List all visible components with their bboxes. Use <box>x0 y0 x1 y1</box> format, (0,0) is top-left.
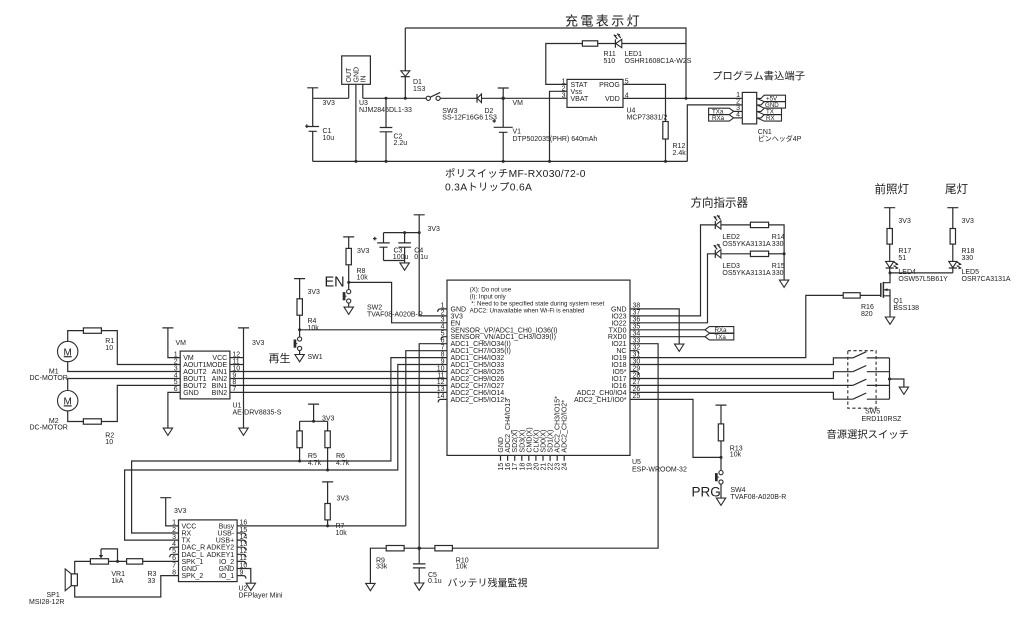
wire U3 OUT pin <box>348 84 350 98</box>
ground rail (bottom) <box>313 160 688 162</box>
switch SW5 element 1 <box>853 352 890 358</box>
svg-text:18: 18 <box>519 463 526 471</box>
svg-text:ADC2_CH7/IO27: ADC2_CH7/IO27 <box>451 383 505 390</box>
diode D2 <box>476 94 478 103</box>
svg-text:OS5YKA3131A: OS5YKA3131A <box>722 270 771 277</box>
svg-text:USB+: USB+ <box>216 538 234 545</box>
svg-text:OUT: OUT <box>346 67 353 83</box>
svg-text:GND: GND <box>611 306 627 313</box>
svg-text:R18: R18 <box>962 248 975 255</box>
wire IO35 to DFPlayer Busy <box>406 351 447 526</box>
wire TX net (IO33 to DFPlayer TX) <box>125 365 447 541</box>
LED LED2 <box>714 221 716 229</box>
switch SW5 element 2 <box>853 366 890 372</box>
svg-text:DC-MOTOR: DC-MOTOR <box>30 375 68 382</box>
svg-text:SENSOR_VN/ADC1_CH3/IO39(I): SENSOR_VN/ADC1_CH3/IO39(I) <box>451 334 556 341</box>
svg-text:IO5*: IO5* <box>612 369 626 376</box>
wire U3 IN pin <box>362 84 364 98</box>
svg-text:(I): Input only: (I): Input only <box>470 293 507 300</box>
power 3V3 (ESP) <box>414 215 425 316</box>
svg-text:BSS138: BSS138 <box>893 305 919 312</box>
svg-text:OSR7CA3131A: OSR7CA3131A <box>962 276 1011 283</box>
svg-text:VDD: VDD <box>605 96 620 103</box>
svg-text:10: 10 <box>105 345 113 352</box>
svg-text:10k: 10k <box>336 530 348 537</box>
nc hooks U2 pins 15-11 <box>237 533 246 536</box>
svg-text:3V3: 3V3 <box>898 218 911 225</box>
svg-text:LED2: LED2 <box>722 234 740 241</box>
resistor R7 <box>325 504 330 520</box>
power 3V3 (R7) <box>322 482 333 504</box>
resistor R17 <box>887 229 892 245</box>
svg-text:22: 22 <box>548 463 555 471</box>
wire speaker minus to U2 SPK_2 <box>75 576 179 597</box>
svg-text:IO_1: IO_1 <box>219 573 234 580</box>
svg-text:OSW57L5B61Y: OSW57L5B61Y <box>898 276 948 283</box>
svg-text:16: 16 <box>505 463 512 471</box>
wire 3V3 rail left segment <box>313 97 349 99</box>
svg-text:ADC1_CH6/IO34(I): ADC1_CH6/IO34(I) <box>451 341 511 348</box>
svg-text:CLK(X): CLK(X) <box>533 430 540 453</box>
svg-text:GND: GND <box>353 67 360 83</box>
svg-text:GND: GND <box>219 566 235 573</box>
svg-text:ポリスイッチMF-RX030/72-0: ポリスイッチMF-RX030/72-0 <box>445 168 586 180</box>
svg-text:R15: R15 <box>772 263 785 270</box>
svg-text:Busy: Busy <box>219 523 235 530</box>
resistor R1 <box>83 328 101 333</box>
svg-text:3V3: 3V3 <box>308 289 321 296</box>
svg-text:VM: VM <box>176 340 187 347</box>
svg-text:10k: 10k <box>456 563 468 570</box>
wire ESP GND pin38 to ground <box>630 309 679 344</box>
wire IO17 to SW5 <box>630 372 853 379</box>
wire M2 minus lead <box>68 411 84 422</box>
svg-text:3V3: 3V3 <box>357 248 370 255</box>
svg-text:20: 20 <box>533 463 540 471</box>
wire divider junction <box>404 547 435 549</box>
wire AIN1 to IO25 <box>230 371 447 373</box>
wire M1 minus to U1 AOUT2 <box>68 362 181 372</box>
capacitor C3 <box>373 233 390 261</box>
wire U4 Vss to ground rail <box>550 91 568 161</box>
svg-text:10u: 10u <box>323 135 335 142</box>
wire RX net (IO32 to DFPlayer RX) <box>132 358 447 533</box>
wire U1 VCC stub <box>230 357 244 359</box>
power 3V3 (regulator output) <box>307 88 318 99</box>
svg-text:33k: 33k <box>376 563 388 570</box>
wire bypass branch <box>384 232 420 234</box>
resistor R8 <box>346 248 351 264</box>
svg-text:19: 19 <box>526 463 533 471</box>
svg-text:EN: EN <box>325 274 345 290</box>
power 3V3 (R17) <box>884 208 895 229</box>
net flag RXa <box>709 115 734 121</box>
power 3V3 (R5/R6 pullups) <box>308 404 319 421</box>
svg-text:3: 3 <box>172 534 176 541</box>
switch SW1 <box>298 337 302 341</box>
motor M1 <box>57 341 77 361</box>
power (R13 pullup) <box>716 405 727 424</box>
resistor R9 <box>370 548 386 583</box>
svg-text:ピンヘッダ4P: ピンヘッダ4P <box>758 134 802 143</box>
svg-text:17: 17 <box>512 463 519 471</box>
svg-text:3V3: 3V3 <box>323 100 336 107</box>
svg-text:13: 13 <box>437 386 445 393</box>
net flag +5V <box>757 95 786 101</box>
resistor R5 <box>297 431 302 448</box>
svg-text:DFPlayer Mini: DFPlayer Mini <box>239 593 283 600</box>
resistor R16 <box>843 293 860 298</box>
svg-text:15: 15 <box>498 463 505 471</box>
wire R1 to U1 AOUT1 <box>101 331 180 365</box>
resistor R14 <box>750 222 768 227</box>
svg-text:SPK_1: SPK_1 <box>182 559 204 566</box>
wire SW2 to ground <box>348 303 350 307</box>
svg-text:IO22: IO22 <box>611 320 626 327</box>
capacitor C4 <box>398 233 411 263</box>
bottom pin stubs 15-24 <box>501 455 565 460</box>
wire U4 VDD to CN1 <box>623 97 742 99</box>
power 3V3 (R18) <box>947 208 958 229</box>
svg-text:2.2u: 2.2u <box>394 140 408 147</box>
wire 3V3 to ESP pin2 <box>419 315 447 317</box>
capacitor C5 <box>413 548 426 583</box>
wire SW1 to ground <box>299 351 301 355</box>
wire EN net to ESP <box>349 282 447 322</box>
svg-text:IO18: IO18 <box>611 362 626 369</box>
ground (U1 GND) <box>163 428 172 435</box>
potentiometer VR1 <box>90 559 108 564</box>
svg-text:10k: 10k <box>357 275 369 282</box>
switch SW2 <box>347 290 351 294</box>
svg-text:R17: R17 <box>898 248 911 255</box>
switch SW5 element 4 <box>853 393 890 399</box>
svg-text:R7: R7 <box>336 523 345 530</box>
svg-text:DC-MOTOR: DC-MOTOR <box>30 425 68 432</box>
svg-text:Q1: Q1 <box>893 298 902 305</box>
resistor R15 <box>750 251 768 256</box>
svg-text:ESP-WROOM-32: ESP-WROOM-32 <box>632 467 687 474</box>
svg-text:ADC2_CH5/IO12*: ADC2_CH5/IO12* <box>451 397 508 404</box>
svg-text:510: 510 <box>604 58 616 65</box>
svg-text:RXa: RXa <box>712 115 725 122</box>
wire 5V top rail <box>405 28 686 98</box>
svg-text:GND: GND <box>182 566 198 573</box>
svg-text:V1: V1 <box>513 128 522 135</box>
svg-text:VBAT: VBAT <box>571 96 589 103</box>
wire CN1 pin2 GND <box>687 105 742 161</box>
net flag TXa (ESP) <box>705 334 734 340</box>
svg-text:330: 330 <box>962 255 974 262</box>
wire SW4 to ground <box>720 484 722 498</box>
svg-text:RX: RX <box>182 531 192 538</box>
svg-text:ADC2_CH1/IO0*: ADC2_CH1/IO0* <box>574 397 627 404</box>
LED LED4 <box>886 261 894 267</box>
svg-text:尾灯: 尾灯 <box>945 183 968 196</box>
switch SW5 dashed box <box>848 351 876 409</box>
wire IO23 to LED2 <box>630 225 715 316</box>
regulator U3 <box>342 56 371 84</box>
svg-text:ADC2_CH8/IO25: ADC2_CH8/IO25 <box>451 369 505 376</box>
svg-text:前照灯: 前照灯 <box>875 182 910 196</box>
LED LED1 <box>614 39 616 47</box>
wire IO4 to SW5 <box>630 392 853 399</box>
ground (C3/C4) <box>400 263 409 270</box>
svg-text:AE-DRV8835-S: AE-DRV8835-S <box>233 410 282 417</box>
battery V1 <box>492 98 512 161</box>
svg-text:AOUT2: AOUT2 <box>183 369 206 376</box>
wire IO21 to battery divider (R10) <box>452 344 658 549</box>
wire U4 PROG to R12 <box>623 84 666 121</box>
audio module U2 DFPlayer <box>179 520 238 582</box>
svg-text:LED3: LED3 <box>722 263 740 270</box>
svg-text:GND: GND <box>183 390 199 397</box>
wire IO22 to LED3 <box>630 254 715 323</box>
svg-text:バッテリ残量監視: バッテリ残量監視 <box>448 576 528 589</box>
svg-text:DTP502035(PHR) 640mAh: DTP502035(PHR) 640mAh <box>513 136 598 143</box>
svg-text:DAC_L: DAC_L <box>182 552 205 559</box>
svg-text:SD3(X): SD3(X) <box>519 430 526 453</box>
svg-text:CMD(X): CMD(X) <box>526 427 533 452</box>
motor M2 <box>57 391 77 411</box>
nc hook pin14 <box>438 399 447 402</box>
svg-text:音源選択スイッチ: 音源選択スイッチ <box>827 428 909 441</box>
wire M2 plus to U1 BOUT1 <box>68 379 181 391</box>
wire U1 MODE stub <box>230 364 244 366</box>
wire U1 GND to ground <box>168 392 180 428</box>
svg-text:Vss: Vss <box>571 89 583 96</box>
svg-text:IN: IN <box>360 76 367 83</box>
svg-text:R5: R5 <box>308 453 317 460</box>
svg-text:PROG: PROG <box>599 82 620 89</box>
wire SENSOR_VP net (SW1 to ESP) <box>300 329 447 331</box>
svg-text:10k: 10k <box>730 452 742 459</box>
svg-text:PRG: PRG <box>692 485 721 500</box>
transistor Q1 <box>883 273 890 283</box>
resistor R12 <box>663 122 668 140</box>
svg-text:IO_2: IO_2 <box>219 559 234 566</box>
svg-text:ADKEY2: ADKEY2 <box>207 545 235 552</box>
power VM <box>498 88 509 98</box>
svg-text:3V3: 3V3 <box>337 495 350 502</box>
wire VR1 to R3 <box>109 560 127 562</box>
wire IO18 to SW5 <box>630 358 853 365</box>
resistor R18 <box>950 229 955 245</box>
svg-text:SW5: SW5 <box>865 409 880 416</box>
wire pullup top link <box>300 421 328 431</box>
svg-text:TXa: TXa <box>715 334 727 341</box>
switch SW5 element 3 <box>853 379 890 385</box>
svg-text:820: 820 <box>861 311 873 318</box>
wire C3 to C4 ground link <box>384 260 405 262</box>
wire BIN2 to IO14 <box>230 391 447 393</box>
svg-text:SPK_2: SPK_2 <box>182 573 204 580</box>
connector CN1 <box>742 92 756 124</box>
wire SW3 to D2 <box>440 97 477 99</box>
svg-text:ADKEY1: ADKEY1 <box>207 552 235 559</box>
resistor R6 <box>325 431 330 448</box>
svg-text:3: 3 <box>441 317 445 324</box>
svg-text:USB-: USB- <box>217 531 234 538</box>
svg-text:0.1u: 0.1u <box>414 254 428 261</box>
svg-text:3: 3 <box>174 365 178 372</box>
svg-text:10: 10 <box>105 439 113 446</box>
svg-text:CN1: CN1 <box>758 129 772 136</box>
svg-text:AIN2: AIN2 <box>212 376 228 383</box>
svg-text:TVAF08-A020B-R: TVAF08-A020B-R <box>367 312 423 319</box>
wire IO16 to SW5 <box>630 384 853 386</box>
svg-text:ADC2_CH6/IO14: ADC2_CH6/IO14 <box>451 390 505 397</box>
speaker SP1 <box>65 569 71 591</box>
svg-text:充電表示灯: 充電表示灯 <box>565 14 642 29</box>
svg-text:5: 5 <box>174 379 178 386</box>
svg-text:33: 33 <box>148 578 156 585</box>
svg-text:MCP73831/2: MCP73831/2 <box>627 114 668 121</box>
nc hook U2 pin5 <box>170 554 179 557</box>
wire IO19 to R16 <box>630 295 843 357</box>
wire AIN2 to IO26 <box>230 378 447 380</box>
wire M1 plus lead <box>68 331 84 342</box>
svg-text:TX: TX <box>182 538 191 545</box>
wire R3 to U2 SPK_1 <box>143 560 179 562</box>
svg-text:ADC2_CH0/IO4: ADC2_CH0/IO4 <box>577 390 627 397</box>
svg-text:AIN1: AIN1 <box>212 369 228 376</box>
svg-text:VCC: VCC <box>182 523 197 530</box>
svg-text:RXD0: RXD0 <box>608 334 627 341</box>
svg-text:IO16: IO16 <box>611 383 626 390</box>
svg-text:BIN2: BIN2 <box>212 390 228 397</box>
svg-text:10: 10 <box>437 365 445 372</box>
svg-text:(X): Do not use: (X): Do not use <box>470 286 512 293</box>
svg-text:3V3: 3V3 <box>962 218 975 225</box>
svg-text:DAC_R: DAC_R <box>182 545 206 552</box>
svg-text:AOUT1: AOUT1 <box>183 362 206 369</box>
switch SW4 <box>719 471 723 475</box>
net flag TXa <box>709 108 734 114</box>
svg-text:SD1(X): SD1(X) <box>548 430 555 453</box>
svg-text:R6: R6 <box>336 453 345 460</box>
svg-text:再生: 再生 <box>269 351 291 365</box>
svg-text:U2: U2 <box>239 586 248 593</box>
net flag RX <box>757 115 782 121</box>
svg-text:EN: EN <box>451 320 461 327</box>
svg-text:BOUT1: BOUT1 <box>183 376 206 383</box>
svg-text:3V3: 3V3 <box>252 340 265 347</box>
net flag TX <box>757 108 782 114</box>
svg-text:1S3: 1S3 <box>413 86 426 93</box>
svg-text:*: Need to be specified state: *: Need to be specified state during sys… <box>471 300 604 307</box>
svg-text:51: 51 <box>898 255 906 262</box>
diode D1 <box>404 28 406 98</box>
wire LED cathode link <box>890 272 953 274</box>
svg-text:ADC2: Unavailable when Wi-Fi i: ADC2: Unavailable when Wi-Fi is enabled <box>470 307 585 314</box>
svg-text:GND: GND <box>451 306 467 313</box>
svg-text:0.1u: 0.1u <box>428 578 442 585</box>
svg-text:330: 330 <box>772 270 784 277</box>
svg-text:SD2(X): SD2(X) <box>512 430 519 453</box>
svg-text:SD0(X): SD0(X) <box>541 430 548 453</box>
svg-text:1kA: 1kA <box>111 578 123 585</box>
power 3V3 (DFPlayer VCC) <box>160 498 178 526</box>
svg-text:プログラム書込端子: プログラム書込端子 <box>712 70 805 83</box>
svg-text:7: 7 <box>172 562 176 569</box>
svg-text:3V3: 3V3 <box>174 508 187 515</box>
nc hook pin1 <box>438 309 447 312</box>
resistor R11 <box>582 41 597 46</box>
svg-text:3V3: 3V3 <box>428 226 441 233</box>
wire speaker plus to VR1 <box>75 561 91 574</box>
svg-text:SW1: SW1 <box>308 354 323 361</box>
svg-text:24: 24 <box>562 463 569 471</box>
wire U3 GND pin to ground rail <box>355 84 357 161</box>
svg-text:R16: R16 <box>861 304 874 311</box>
svg-text:ADC2_CH4/IO13: ADC2_CH4/IO13 <box>505 399 512 453</box>
wire BIN1 to IO27 <box>230 384 447 386</box>
resistor R2 <box>83 419 101 424</box>
wire U2 GND pin10 to ground <box>237 569 251 584</box>
svg-text:LED5: LED5 <box>962 269 980 276</box>
resistor R3 <box>127 559 143 564</box>
svg-text:2: 2 <box>174 358 178 365</box>
svg-text:3: 3 <box>562 93 566 100</box>
net flag GND (CN1) <box>757 102 786 108</box>
svg-text:9: 9 <box>441 358 445 365</box>
resistor R13 <box>718 424 723 441</box>
svg-text:1: 1 <box>172 520 176 527</box>
power 3V3 (R4) <box>294 279 305 299</box>
wire IO0 to PRG switch <box>630 399 721 457</box>
svg-text:SS-12F16G6: SS-12F16G6 <box>442 115 483 122</box>
nc hook pin5 <box>441 337 447 340</box>
svg-text:2: 2 <box>172 527 176 534</box>
wire IO34 to battery divider <box>419 344 447 549</box>
svg-text:U5: U5 <box>632 459 641 466</box>
resistor R10 <box>435 546 453 551</box>
svg-text:SW2: SW2 <box>367 304 382 311</box>
wire VM rail to charger <box>503 97 567 99</box>
svg-text:MODE: MODE <box>206 362 227 369</box>
wire RXD0 to flag <box>630 336 705 338</box>
svg-text:23: 23 <box>555 463 562 471</box>
nc hook U2 pin9 <box>237 576 246 579</box>
charger U4 <box>567 79 623 107</box>
resistor R4 <box>297 299 302 315</box>
ground (MODE) <box>239 428 248 435</box>
wire STAT branch <box>546 44 583 85</box>
wire SW5 common bus <box>890 358 904 399</box>
svg-text:12: 12 <box>437 379 445 386</box>
net flag RXa (ESP) <box>705 327 734 333</box>
svg-text:D1: D1 <box>413 79 422 86</box>
svg-text:IO21: IO21 <box>611 341 626 348</box>
svg-text:ADC2_CH2/IO2*: ADC2_CH2/IO2* <box>562 400 569 453</box>
wire R15 to ground vertical <box>769 253 785 255</box>
svg-text:330: 330 <box>772 241 784 248</box>
nc hook pin32 <box>630 351 639 354</box>
svg-text:21: 21 <box>541 463 548 471</box>
MCU U5 ESP-WROOM-32 <box>447 280 630 455</box>
wire R2 to U1 BOUT2 <box>101 385 180 421</box>
svg-text:2.4k: 2.4k <box>673 150 687 157</box>
wire VM rail right segment <box>363 97 426 99</box>
svg-text:OS5YKA3131A: OS5YKA3131A <box>722 241 771 248</box>
svg-text:ADC2_CH3/IO15*: ADC2_CH3/IO15* <box>555 396 562 453</box>
driver U1 <box>180 351 230 399</box>
svg-text:10k: 10k <box>308 325 320 332</box>
LED LED5 <box>949 261 957 267</box>
svg-text:ERD110RSZ: ERD110RSZ <box>862 416 903 423</box>
nc hook U2 pin4 <box>170 547 179 550</box>
